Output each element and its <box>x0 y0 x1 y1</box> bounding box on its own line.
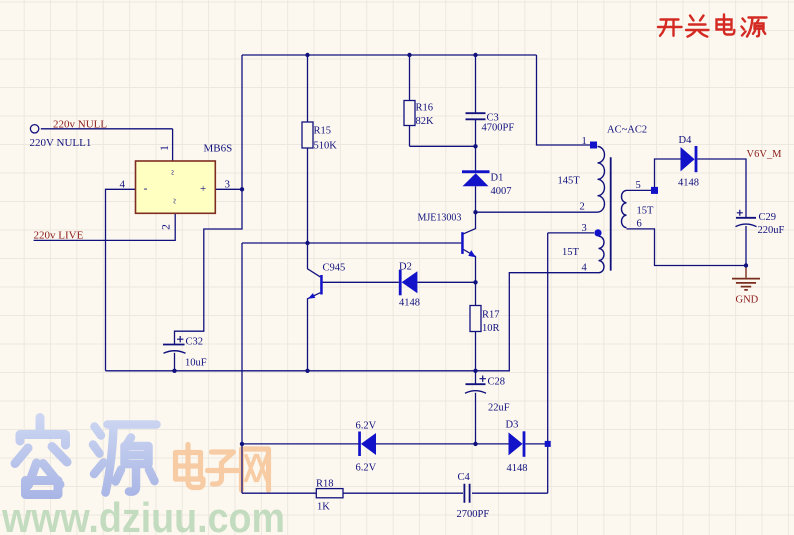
svg-text:4: 4 <box>120 179 126 191</box>
node C32 bottom <box>172 369 176 373</box>
svg-text:D2: D2 <box>399 262 412 273</box>
wire secondary pin5 <box>627 159 681 190</box>
resistor R16 <box>404 101 434 128</box>
watermark dian <box>176 445 204 488</box>
svg-text:4007: 4007 <box>491 186 512 197</box>
wire C3 stubs <box>475 55 477 146</box>
wire D3 row <box>476 443 548 445</box>
svg-text:R18: R18 <box>316 479 334 490</box>
wire D2 anode to emitter node <box>417 281 475 283</box>
svg-text:GND: GND <box>736 295 759 306</box>
node MB6S pin3 <box>240 187 244 191</box>
svg-text:4148: 4148 <box>678 178 699 189</box>
node C29 bottom gnd <box>744 263 748 267</box>
resistor R18 <box>316 479 343 513</box>
svg-text:82K: 82K <box>416 116 435 127</box>
svg-text:4148: 4148 <box>507 463 528 474</box>
bridge rectifier MB6S body <box>136 161 216 213</box>
wire R17 stubs <box>475 282 477 371</box>
wire top rail <box>242 54 537 56</box>
transistor Q2 C945 <box>308 263 345 299</box>
svg-text:AC~AC2: AC~AC2 <box>607 125 647 136</box>
svg-text:220v LIVE: 220v LIVE <box>34 230 84 242</box>
wire secondary pin6 <box>627 229 747 266</box>
node C3 bottom <box>473 144 477 148</box>
transformer AC~AC2 primary 145T <box>558 147 605 213</box>
watermark wang <box>242 449 269 490</box>
svg-text:+: + <box>200 183 206 195</box>
svg-text:MB6S: MB6S <box>204 143 233 155</box>
ground symbol <box>732 267 760 306</box>
node zener left <box>240 442 244 446</box>
svg-text:2: 2 <box>161 224 173 230</box>
diode D1 4007 <box>462 170 512 197</box>
node D1 anode collector <box>473 210 477 214</box>
svg-text:6.2V: 6.2V <box>356 421 377 432</box>
node R16 top <box>407 53 411 57</box>
svg-text:220V NULL1: 220V NULL1 <box>30 137 92 149</box>
wire 220v NULL to MB6S pin1 <box>41 129 173 161</box>
wire C32 bottom stub <box>174 353 176 371</box>
svg-text:220v NULL: 220v NULL <box>53 119 107 131</box>
wire D4 to V6V_M <box>698 159 747 217</box>
svg-text:1: 1 <box>159 145 171 151</box>
wire zener row <box>242 443 476 445</box>
node R17 bottom <box>473 369 477 373</box>
svg-text:6.2V: 6.2V <box>356 463 377 474</box>
svg-text:15T: 15T <box>637 206 655 217</box>
transformer pin 1 pad <box>590 142 597 149</box>
watermark yuan <box>93 425 157 493</box>
capacitor C3 <box>466 113 515 134</box>
wire top rail to transformer pin1 <box>537 55 591 145</box>
node emitter D2 <box>473 280 477 284</box>
wire bottom rail <box>106 273 599 371</box>
svg-text:5: 5 <box>636 180 641 191</box>
transformer pin 5 pad <box>651 187 658 194</box>
transformer feedback winding 15T <box>562 236 604 273</box>
svg-text:~: ~ <box>170 198 181 204</box>
wire C945 collector <box>308 243 321 277</box>
wire R16 stubs <box>410 55 476 146</box>
svg-text:MJE13003: MJE13003 <box>418 213 462 224</box>
svg-text:10uF: 10uF <box>185 358 207 369</box>
transformer pin 3 pad <box>594 229 601 236</box>
svg-text:D4: D4 <box>679 135 693 146</box>
resistor R15 <box>302 122 337 152</box>
node D3 cathode square <box>545 441 551 447</box>
watermark zi <box>208 452 238 484</box>
svg-text:www.dziuu.com: www.dziuu.com <box>1 494 285 535</box>
svg-text:-: - <box>144 181 148 195</box>
svg-text:2700PF: 2700PF <box>457 509 490 520</box>
svg-text:4: 4 <box>582 263 588 274</box>
diode D3 4148 <box>506 420 528 475</box>
wire C29 bottom stub <box>745 226 747 266</box>
diode D2 4148 <box>399 262 420 309</box>
terminal circle 220v NULL <box>30 125 38 133</box>
transistor Q1 MJE13003 <box>418 213 476 258</box>
node R15 bottom base <box>305 241 309 245</box>
svg-text:D3: D3 <box>506 420 519 431</box>
svg-text:220uF: 220uF <box>758 225 785 236</box>
node R15 top <box>305 53 309 57</box>
wire MB6S pin3 net <box>175 55 243 344</box>
transformer secondary winding 15T <box>622 190 655 227</box>
svg-text:~: ~ <box>168 169 179 175</box>
capacitor C32 <box>163 336 207 369</box>
svg-text:R16: R16 <box>416 103 434 114</box>
svg-text:R15: R15 <box>314 126 332 137</box>
title kai-guan-dian-yuan (red) <box>658 15 767 37</box>
transformer core <box>610 157 612 270</box>
diode D4 4148 <box>678 135 699 189</box>
svg-text:6: 6 <box>637 219 642 230</box>
svg-text:145T: 145T <box>558 176 581 187</box>
wire base row Q1 <box>242 242 461 244</box>
node C28 bottom <box>473 442 477 446</box>
svg-text:V6V_M: V6V_M <box>747 149 783 160</box>
svg-text:C29: C29 <box>759 212 777 223</box>
wire D1 stubs <box>475 146 477 212</box>
svg-text:3: 3 <box>225 179 231 191</box>
svg-text:C28: C28 <box>488 377 506 388</box>
wire base drive vertical <box>241 243 243 444</box>
resistor R17 <box>470 306 500 335</box>
wire C4 to D3 node <box>472 492 548 494</box>
node C3 top <box>473 53 477 57</box>
svg-text:10R: 10R <box>482 323 500 334</box>
svg-text:22uF: 22uF <box>488 403 510 414</box>
capacitor C4 <box>457 472 490 520</box>
svg-text:4148: 4148 <box>399 298 420 309</box>
svg-text:2: 2 <box>580 202 585 213</box>
zener diode 6.2V <box>356 421 377 474</box>
wire emitter MJE13003 <box>464 250 476 283</box>
wire C945 base to D2 <box>323 281 399 283</box>
wire R18 C4 row <box>242 444 463 493</box>
svg-text:D1: D1 <box>491 173 504 184</box>
svg-text:3: 3 <box>582 223 587 234</box>
capacitor C28 <box>465 376 510 414</box>
node C945 emitter bottom <box>305 369 309 373</box>
svg-text:1K: 1K <box>317 502 330 513</box>
wire C945 emitter <box>308 293 321 371</box>
wire collector MJE13003 <box>464 212 476 234</box>
wire C28 stubs <box>475 371 477 444</box>
svg-text:4700PF: 4700PF <box>482 123 515 134</box>
svg-text:C32: C32 <box>186 337 204 348</box>
wire MB6S pin4 net <box>106 189 136 370</box>
svg-text:C945: C945 <box>323 263 346 274</box>
watermark rong <box>15 418 67 495</box>
svg-text:1: 1 <box>582 136 587 147</box>
svg-text:15T: 15T <box>562 247 580 258</box>
svg-text:C4: C4 <box>458 472 471 483</box>
wire R15 stubs <box>307 55 309 243</box>
wire 220v LIVE to MB6S pin2 <box>34 213 176 240</box>
svg-text:510K: 510K <box>314 141 338 152</box>
wire transformer pin2 row <box>476 211 598 213</box>
capacitor C29 <box>736 210 785 236</box>
wire transformer pin3 net <box>548 233 594 493</box>
svg-text:R17: R17 <box>482 310 500 321</box>
